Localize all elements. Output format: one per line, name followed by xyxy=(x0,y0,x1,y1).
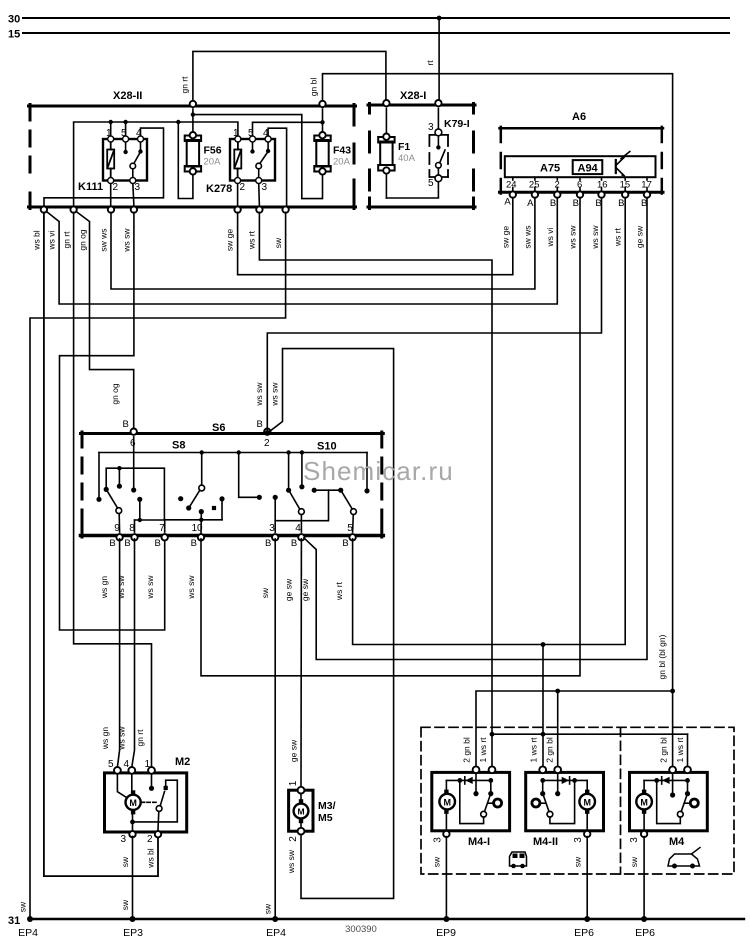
wire ws sw S6 pin10 to A6 pin6 xyxy=(201,198,580,676)
fuse F56 xyxy=(185,136,201,172)
M4 group dashed box xyxy=(421,727,734,874)
svg-text:ws sw: ws sw xyxy=(568,225,578,250)
svg-text:31: 31 xyxy=(8,915,20,927)
svg-text:gn og: gn og xyxy=(110,383,120,405)
wire ws bl t1 to M2 pin2 xyxy=(44,212,158,876)
svg-text:2: 2 xyxy=(147,834,153,845)
svg-text:sw: sw xyxy=(18,901,28,912)
bus A right end drop xyxy=(366,453,368,489)
svg-text:ws sw: ws sw xyxy=(590,225,600,250)
svg-text:5: 5 xyxy=(428,178,434,189)
svg-text:B: B xyxy=(342,538,348,549)
svg-text:20A: 20A xyxy=(333,157,351,168)
svg-text:300390: 300390 xyxy=(345,924,377,935)
gn bl rail xyxy=(476,689,675,767)
svg-text:ws sw: ws sw xyxy=(270,382,280,407)
svg-text:sw: sw xyxy=(263,903,273,914)
motor symbol M2 xyxy=(126,795,141,810)
relay pin terminals xyxy=(108,136,271,184)
wire ws sw S6 pin2 to M3/M5 pin2 xyxy=(270,349,394,899)
svg-text:B: B xyxy=(550,198,556,209)
svg-text:5: 5 xyxy=(108,759,114,770)
svg-text:M: M xyxy=(640,797,648,807)
svg-text:24: 24 xyxy=(506,180,517,191)
svg-text:ws vi: ws vi xyxy=(47,230,57,250)
S6 bottom terminals xyxy=(116,534,355,540)
svg-text:sw: sw xyxy=(573,856,583,867)
K111 pin risers to internal bus xyxy=(109,120,128,137)
right arm xyxy=(342,492,352,509)
svg-text:gn og: gn og xyxy=(78,229,88,251)
svg-text:sw: sw xyxy=(260,587,270,598)
svg-text:20A: 20A xyxy=(204,157,222,168)
wire ge sw S6 pin4 to A6 pin17 xyxy=(304,198,647,660)
wire sw S6 pin3 to EP4 xyxy=(274,539,276,919)
wire gn rt t2 to M2 pin1 xyxy=(74,212,152,767)
svg-text:ws bl: ws bl xyxy=(146,848,156,868)
svg-text:3: 3 xyxy=(629,837,640,843)
svg-text:B: B xyxy=(291,538,297,549)
svg-text:F56: F56 xyxy=(204,145,222,157)
svg-text:EP6: EP6 xyxy=(574,927,594,939)
relay contact K79-I xyxy=(429,135,448,177)
svg-text:EP4: EP4 xyxy=(18,927,38,939)
wire ws sw t4 to S6 pin7 xyxy=(60,212,165,630)
K278 relay box xyxy=(230,139,275,181)
svg-text:gn rt: gn rt xyxy=(180,76,190,94)
svg-text:2 gn bl: 2 gn bl xyxy=(659,737,669,763)
M2 bottom wires xyxy=(132,836,134,919)
svg-text:2: 2 xyxy=(554,180,559,191)
wire ws rt S6 pin5 to A6 pin15 xyxy=(353,198,626,645)
wire ws sw S6 pin8 to M2 pin4 xyxy=(132,539,135,767)
svg-text:sw: sw xyxy=(120,899,130,910)
bus A xyxy=(99,452,367,454)
svg-text:3: 3 xyxy=(428,122,434,133)
svg-text:gn bl (bl gn): gn bl (bl gn) xyxy=(657,634,667,679)
wire sw t7 ground to EP4 xyxy=(30,212,286,919)
svg-text:ws sw: ws sw xyxy=(116,575,126,600)
svg-text:1: 1 xyxy=(288,780,299,786)
svg-text:3: 3 xyxy=(262,182,268,193)
svg-text:30: 30 xyxy=(8,14,20,26)
fuse F43 xyxy=(314,136,330,172)
M4-II block xyxy=(526,772,604,830)
pin3 contact xyxy=(274,500,276,532)
S8 right group xyxy=(201,453,203,486)
A6 pin stubs and numbers xyxy=(513,177,647,191)
svg-text:ws sw: ws sw xyxy=(122,228,132,253)
X28-II box xyxy=(29,105,356,209)
svg-text:ws sw: ws sw xyxy=(117,726,127,751)
svg-text:B: B xyxy=(123,419,129,430)
svg-text:3: 3 xyxy=(433,837,444,843)
sensor symbol xyxy=(616,152,630,177)
wire gn bl (X28-II top to M4 rail) xyxy=(323,74,673,767)
svg-text:40A: 40A xyxy=(398,153,416,164)
wire gn og t2 to S6 pin6 xyxy=(76,211,134,430)
node rt from rail 30 xyxy=(437,16,442,102)
svg-text:ws sw: ws sw xyxy=(186,575,196,600)
svg-text:4: 4 xyxy=(295,523,301,534)
svg-text:sw ws: sw ws xyxy=(523,225,533,248)
svg-text:ws gn: ws gn xyxy=(100,727,110,750)
svg-text:ge sw: ge sw xyxy=(635,225,645,248)
svg-text:M: M xyxy=(129,798,137,808)
bus B xyxy=(106,468,164,520)
S6 top terminals xyxy=(131,429,271,435)
svg-text:gn rt: gn rt xyxy=(135,729,145,747)
svg-text:17: 17 xyxy=(641,180,652,191)
svg-text:B: B xyxy=(109,538,115,549)
ws rt rail xyxy=(490,732,688,767)
svg-text:6: 6 xyxy=(577,180,582,191)
svg-text:A: A xyxy=(504,197,511,208)
K111 pins 2,3 to terminals xyxy=(111,183,134,207)
svg-text:EP4: EP4 xyxy=(266,927,286,939)
svg-text:ws sw: ws sw xyxy=(286,849,296,874)
svg-text:25: 25 xyxy=(529,180,540,191)
K278 pin4 jog to terminal sw xyxy=(268,128,287,206)
A6 box xyxy=(500,127,664,194)
wire ge sw S6 pin4 to M3/M5 pin1 xyxy=(300,539,302,787)
svg-text:M: M xyxy=(297,807,304,817)
svg-text:4: 4 xyxy=(124,759,130,770)
svg-text:EP6: EP6 xyxy=(635,927,655,939)
A6 wire labels xyxy=(501,225,645,250)
svg-text:M4-I: M4-I xyxy=(468,836,490,848)
svg-text:EP3: EP3 xyxy=(123,927,143,939)
svg-text:K278: K278 xyxy=(206,183,232,195)
svg-text:ws rt: ws rt xyxy=(247,230,257,250)
svg-text:S10: S10 xyxy=(317,441,337,453)
rail 30 xyxy=(23,18,729,33)
svg-text:sw ws: sw ws xyxy=(99,228,109,251)
svg-text:2: 2 xyxy=(240,182,246,193)
K278 pins 2,3 to terminals xyxy=(238,183,260,207)
wire sw ge t5 to A6 pin24 xyxy=(238,198,513,275)
svg-text:1 ws rt: 1 ws rt xyxy=(529,737,539,763)
svg-text:gn rt: gn rt xyxy=(62,231,72,249)
wire gn rt internal link y=114.6 xyxy=(193,115,323,199)
K111 pin4 jog to terminal 1 xyxy=(44,128,164,206)
svg-text:ws sw: ws sw xyxy=(254,382,264,407)
terminal 30 bus line xyxy=(23,17,729,19)
car icon trunk xyxy=(668,848,700,869)
svg-text:2: 2 xyxy=(264,438,270,449)
car icon van xyxy=(510,852,527,868)
svg-text:F1: F1 xyxy=(398,141,410,153)
svg-text:ge sw: ge sw xyxy=(289,739,299,762)
svg-text:sw: sw xyxy=(432,856,442,867)
X28-II bottom wire labels xyxy=(32,228,284,253)
svg-text:M2: M2 xyxy=(175,756,190,768)
M2 block xyxy=(105,773,187,832)
svg-text:B: B xyxy=(191,538,197,549)
S6 box xyxy=(81,432,384,537)
X28-II terminals top xyxy=(190,101,326,107)
ground rail 31 xyxy=(30,918,744,920)
svg-text:B: B xyxy=(155,538,161,549)
svg-text:ws gn: ws gn xyxy=(99,576,109,599)
svg-text:2 gn bl: 2 gn bl xyxy=(462,737,472,763)
junction ws rt branch xyxy=(541,642,546,647)
S8 internals xyxy=(96,437,367,534)
K278 contact xyxy=(250,141,270,179)
svg-text:2 gn bl: 2 gn bl xyxy=(545,737,555,763)
K278 coil xyxy=(234,141,241,179)
bar contact xyxy=(314,489,341,491)
svg-text:16: 16 xyxy=(597,180,608,191)
fuse F1 xyxy=(378,137,394,171)
svg-text:3: 3 xyxy=(269,523,275,534)
svg-text:M4: M4 xyxy=(669,836,685,848)
wire ws rt t6 to M4-I pin1 xyxy=(259,212,492,766)
X28-II terminals bottom xyxy=(41,206,289,212)
svg-text:3: 3 xyxy=(135,182,141,193)
svg-text:1: 1 xyxy=(145,759,151,770)
inter contact xyxy=(239,453,257,498)
svg-text:A94: A94 xyxy=(578,163,599,175)
svg-text:B: B xyxy=(618,198,624,209)
svg-text:sw: sw xyxy=(629,856,639,867)
svg-text:B: B xyxy=(265,538,271,549)
svg-text:M: M xyxy=(443,797,451,807)
wire ws vi t1 to A6 pin2 xyxy=(46,198,557,304)
svg-text:M4-II: M4-II xyxy=(533,836,558,848)
svg-text:X28-II: X28-II xyxy=(113,90,142,102)
svg-text:3: 3 xyxy=(573,837,584,843)
svg-text:2: 2 xyxy=(113,182,119,193)
S8 left arm xyxy=(116,508,122,514)
wire ws sw S6 pin2 to A6 pin16 xyxy=(267,198,601,431)
wire ws rt branch to M4 rail xyxy=(542,645,544,767)
svg-text:A75: A75 xyxy=(540,163,560,175)
svg-text:A: A xyxy=(527,198,534,209)
svg-text:15: 15 xyxy=(620,180,631,191)
svg-text:S8: S8 xyxy=(172,440,185,452)
svg-text:Shemicar.ru: Shemicar.ru xyxy=(303,456,454,486)
svg-text:M5: M5 xyxy=(318,812,333,824)
svg-text:1 ws rt: 1 ws rt xyxy=(478,737,488,763)
svg-text:K79-I: K79-I xyxy=(444,118,470,130)
svg-text:ws sw: ws sw xyxy=(145,575,155,600)
svg-text:1 ws rt: 1 ws rt xyxy=(675,737,685,763)
svg-text:F43: F43 xyxy=(333,145,351,157)
terminal 15 bus line xyxy=(23,32,729,34)
labels near S6 pins xyxy=(99,382,344,602)
svg-text:sw ge: sw ge xyxy=(225,229,235,251)
X28-I box xyxy=(368,104,475,209)
svg-text:B: B xyxy=(257,419,263,430)
wire gn rt (F1 to X28-II) xyxy=(193,51,386,102)
K111 relay box xyxy=(103,139,147,181)
svg-text:3: 3 xyxy=(121,834,127,845)
svg-text:K111: K111 xyxy=(78,181,103,193)
svg-text:ws rt: ws rt xyxy=(334,581,344,601)
controller A75 xyxy=(505,156,656,177)
svg-text:2: 2 xyxy=(288,836,299,842)
K278 pin5 riser to F43 top xyxy=(253,120,325,136)
svg-text:B: B xyxy=(124,538,130,549)
svg-text:M3/: M3/ xyxy=(318,800,336,812)
svg-text:M: M xyxy=(583,797,591,807)
svg-text:S6: S6 xyxy=(212,422,225,434)
K111 contact xyxy=(123,141,142,179)
pin8 contact stub xyxy=(139,502,141,521)
svg-text:B: B xyxy=(573,198,579,209)
svg-text:EP9: EP9 xyxy=(436,927,456,939)
S10 internals xyxy=(273,450,370,532)
internal bus (F56 out) y=122 xyxy=(74,120,238,206)
wire ws gn S6 pin9 to M2 pin5 xyxy=(117,539,119,767)
M4 block xyxy=(630,772,708,830)
wire sw ws t3 to A6 pin25 xyxy=(111,198,535,289)
svg-text:A6: A6 xyxy=(572,111,586,123)
K111 coil xyxy=(107,141,114,179)
svg-text:15: 15 xyxy=(8,29,20,41)
controller A94 xyxy=(573,160,603,174)
svg-text:gn bl: gn bl xyxy=(309,78,319,97)
left arm xyxy=(299,509,305,515)
M4-I block xyxy=(432,772,510,830)
pin6 drop xyxy=(133,437,135,488)
svg-text:sw ge: sw ge xyxy=(501,226,511,248)
svg-text:ge sw: ge sw xyxy=(284,578,294,601)
svg-text:rt: rt xyxy=(425,60,435,66)
svg-text:ws bl: ws bl xyxy=(32,230,42,250)
svg-text:ws rt: ws rt xyxy=(613,227,623,247)
svg-text:sw: sw xyxy=(120,856,130,867)
M3/M5 block xyxy=(289,790,313,831)
svg-text:X28-I: X28-I xyxy=(400,90,426,102)
svg-text:sw: sw xyxy=(273,237,283,248)
svg-text:ws vi: ws vi xyxy=(545,227,555,247)
